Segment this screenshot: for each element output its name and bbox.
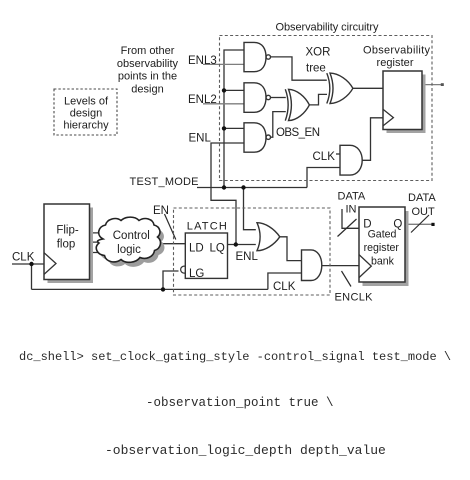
slash DATA IN bus — [338, 219, 357, 237]
node bus-TEST_MODE junction — [222, 185, 226, 189]
dc_shell command text — [19, 350, 451, 458]
svg-text:bank: bank — [371, 255, 395, 267]
wire XOR tree U5 output to register D — [353, 87, 383, 89]
flip-flop clock wedge — [44, 253, 56, 275]
xor gate U5 tree — [330, 73, 353, 103]
wire flip-flop to cloud 3 — [89, 252, 120, 254]
nand gate U3 — [244, 123, 266, 152]
svg-text:register: register — [364, 242, 400, 254]
svg-text:Control: Control — [113, 230, 150, 242]
wire EN to latch LD — [150, 243, 185, 245]
wire LQ output to OR gate — [228, 244, 256, 246]
wire CLK rail to AND U7 — [268, 273, 302, 289]
svg-text:Levels of: Levels of — [64, 96, 109, 108]
wire DATA IN to register D — [342, 209, 359, 228]
wire CLK rail to latch LG — [163, 271, 179, 289]
svg-text:CLK: CLK — [313, 151, 336, 163]
latch box U11 — [185, 233, 227, 278]
svg-text:EN: EN — [153, 205, 169, 217]
latch gate input marker — [181, 266, 185, 273]
svg-text:From other: From other — [121, 45, 175, 57]
svg-text:CLK: CLK — [12, 252, 35, 264]
node ENL LQ junction — [234, 242, 238, 246]
observability circuitry dashed box — [220, 36, 433, 181]
control logic cloud — [96, 217, 160, 262]
wire TEST_MODE riser to OR gate — [244, 188, 256, 230]
control logic cloud shadow — [100, 222, 164, 267]
node CLK left junction — [29, 262, 33, 266]
and gate U6 — [340, 145, 362, 175]
svg-text:LD: LD — [189, 242, 204, 254]
and gate U7 — [302, 250, 322, 281]
svg-text:-observation_logic_depth depth: -observation_logic_depth depth_value — [105, 443, 386, 458]
svg-text:CLK: CLK — [273, 281, 296, 293]
svg-text:Observability: Observability — [363, 45, 431, 57]
gated register bank clock wedge — [359, 255, 371, 278]
wire NAND U2 top input — [224, 89, 244, 91]
svg-text:Observability circuitry: Observability circuitry — [276, 22, 380, 34]
wire ENCLK AND U7 output to register bank clock — [322, 265, 359, 267]
wire flip-flop to cloud 1 — [89, 232, 120, 234]
svg-text:ENL3: ENL3 — [188, 55, 217, 67]
svg-text:DATA: DATA — [408, 192, 436, 204]
or gate U8 — [257, 223, 280, 251]
svg-text:design: design — [131, 83, 163, 95]
gated register bank shadow — [363, 211, 409, 286]
svg-text:hierarchy: hierarchy — [63, 120, 109, 132]
svg-text:design: design — [70, 108, 102, 120]
wire NAND U3 output OBS_EN to XOR U4 — [271, 112, 286, 138]
svg-text:flop: flop — [57, 239, 76, 251]
wire CLK input left — [12, 263, 44, 265]
svg-text:-observation_point true \: -observation_point true \ — [146, 396, 334, 410]
svg-text:observability: observability — [117, 58, 179, 70]
svg-text:OUT: OUT — [412, 206, 436, 218]
svg-text:Gated: Gated — [368, 229, 397, 241]
leader line ENCLK label — [342, 271, 352, 287]
wire NAND U2 output to XOR U4 — [271, 97, 286, 99]
svg-text:Flip-: Flip- — [56, 224, 79, 236]
wire TEST_MODE bus vertical — [224, 50, 244, 188]
wire AND U6 output to register clock — [362, 118, 383, 161]
svg-text:dc_shell> set_clock_gating_sty: dc_shell> set_clock_gating_style -contro… — [19, 350, 451, 364]
svg-text:ENL: ENL — [236, 251, 259, 263]
wire NAND U3 top input — [224, 127, 244, 129]
wire ENL3 input stub — [203, 63, 244, 65]
svg-text:TEST_MODE: TEST_MODE — [130, 176, 199, 188]
svg-text:tree: tree — [306, 63, 326, 75]
wire flip-flop to cloud 2 — [89, 241, 120, 243]
wire XOR U4 output to XOR tree U5 — [309, 94, 327, 105]
nand gate U1 — [244, 42, 266, 71]
wire CLK riser down — [31, 264, 33, 289]
wire CLK stub to AND U6 — [336, 153, 340, 155]
node TEST_MODE-OR junction — [241, 185, 245, 189]
svg-text:ENL2: ENL2 — [188, 94, 217, 106]
svg-text:LATCH: LATCH — [187, 221, 227, 233]
svg-text:Q: Q — [393, 219, 402, 231]
wire NAND U1 output to XOR tree — [271, 57, 327, 80]
svg-text:OBS_EN: OBS_EN — [276, 127, 320, 139]
nand gate U2 — [244, 83, 266, 113]
svg-text:LG: LG — [189, 268, 204, 280]
gated register bank box U10 — [359, 207, 405, 282]
observability register clock wedge — [383, 109, 393, 126]
node bus-ENL junction — [222, 126, 226, 130]
wire TEST_MODE to AND U6 input — [307, 168, 340, 188]
levels of design hierarchy dashed box — [54, 89, 117, 135]
flip-flop box — [44, 204, 90, 280]
svg-text:DATA: DATA — [338, 190, 366, 202]
wire ENL2 input stub — [203, 103, 244, 105]
node observability Q endpoint — [441, 83, 444, 86]
wire register bank Q DATA OUT — [405, 223, 433, 225]
GATES — [244, 42, 362, 280]
wire OR output to AND U7 — [280, 237, 302, 261]
svg-text:LQ: LQ — [210, 242, 225, 254]
flip-flop shadow — [48, 208, 94, 284]
wire CLK bottom rail — [32, 288, 268, 290]
wire TEST_MODE horizontal — [197, 187, 307, 189]
clock gating cell dashed box — [174, 208, 331, 295]
svg-text:register: register — [377, 57, 414, 69]
wire observability register Q output — [422, 84, 443, 86]
svg-text:XOR: XOR — [306, 47, 331, 59]
svg-text:logic: logic — [117, 244, 141, 256]
svg-text:ENCLK: ENCLK — [335, 292, 374, 304]
xor gate U4 — [289, 89, 310, 120]
wire ENL net to NAND U3 — [211, 143, 244, 245]
gray net stubs — [203, 64, 443, 224]
observability register box U9 — [383, 71, 422, 130]
svg-text:D: D — [363, 219, 371, 231]
slash DATA OUT bus — [411, 215, 429, 233]
svg-text:IN: IN — [346, 204, 357, 216]
leader line EN label — [165, 214, 176, 240]
node DATA OUT endpoint — [431, 223, 434, 226]
svg-text:ENL: ENL — [189, 132, 212, 144]
observability register shadow — [387, 75, 426, 134]
node bus-ENL2 junction — [222, 88, 226, 92]
node CLK rail junction — [161, 287, 165, 291]
svg-text:points in the: points in the — [118, 71, 177, 83]
